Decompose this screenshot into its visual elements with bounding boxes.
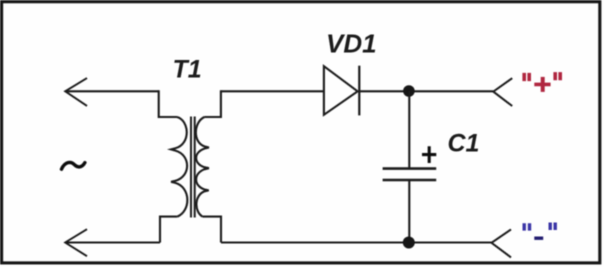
transformer T1 primary top lead	[159, 90, 177, 117]
transformer T1 secondary top lead	[204, 90, 221, 117]
wire: secondary top to diode anode	[221, 90, 324, 92]
transformer T1 primary bottom lead	[160, 217, 177, 243]
wire: bottom AC input to transformer primary	[65, 241, 160, 243]
node junction bottom	[403, 237, 415, 249]
wire: diode cathode to + output	[359, 90, 493, 92]
capacitor C1 top plate	[383, 167, 437, 170]
~ AC symbol	[62, 162, 85, 169]
wire: top AC input to transformer primary	[65, 90, 159, 92]
svg-text:T1: T1	[173, 55, 202, 83]
transformer T1 primary winding	[171, 117, 187, 217]
label "-" (blue)	[524, 223, 555, 239]
diode VD1 cathode bar	[358, 66, 360, 116]
svg-text:C1: C1	[448, 130, 480, 158]
transformer T1 secondary winding	[196, 117, 209, 217]
wire: secondary bottom to - output	[221, 241, 492, 243]
capacitor C1 bottom plate	[383, 179, 437, 182]
wire: top node down to capacitor	[408, 91, 410, 168]
terminal - output	[492, 229, 512, 257]
diode VD1	[324, 66, 358, 115]
svg-text:VD1: VD1	[326, 29, 377, 59]
node junction top	[403, 85, 415, 97]
transformer core	[191, 117, 195, 218]
terminal + output	[493, 78, 512, 106]
arrow: bottom-left input terminal	[65, 229, 87, 256]
polarity + of capacitor	[422, 146, 436, 163]
label "+" (red)	[524, 72, 560, 92]
transformer T1 secondary bottom lead	[203, 217, 222, 243]
arrow: top-left input terminal	[65, 78, 87, 106]
wire: capacitor to bottom node	[408, 180, 410, 243]
